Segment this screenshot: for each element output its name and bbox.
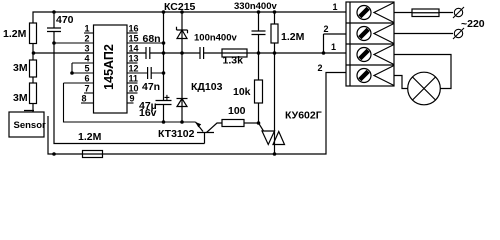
svg-text:КТ3102: КТ3102 — [158, 128, 195, 140]
junction pin12 / C47u — [162, 71, 166, 75]
pin 3 — [84, 44, 89, 54]
svg-text:1.3k: 1.3k — [223, 55, 244, 67]
svg-text:16v: 16v — [139, 107, 157, 119]
sensor box — [9, 112, 46, 137]
svg-text:15: 15 — [129, 34, 139, 44]
svg-text:КУ602Г: КУ602Г — [285, 110, 322, 122]
wire R1 bottom lead — [32, 44, 34, 54]
pin 16 — [127, 24, 139, 34]
wire top rail net 220-1 — [33, 12, 346, 23]
resistor 1.3k — [222, 49, 247, 67]
fuse F1 — [394, 9, 453, 17]
svg-text:3M: 3M — [13, 62, 28, 74]
pin 15 wire — [127, 34, 164, 44]
svg-text:2: 2 — [323, 24, 328, 34]
wire 3M to sensor — [24, 104, 34, 113]
pin 8 — [81, 94, 94, 104]
junction mid rail / zener-diode — [180, 51, 184, 55]
svg-text:6: 6 — [84, 74, 89, 84]
junction top rail / R1.2M right — [273, 10, 277, 14]
op-amp U1 IC 145AP2 box — [94, 25, 128, 113]
svg-text:5: 5 — [84, 64, 89, 74]
svg-text:7: 7 — [84, 84, 89, 94]
junction top rail / C470 — [52, 10, 56, 14]
svg-text:1: 1 — [331, 42, 336, 52]
svg-text:КД103: КД103 — [191, 81, 223, 93]
junction top rail / pin15 net — [162, 10, 166, 14]
junction top rail / C330n — [257, 10, 261, 14]
wire bottom common rail — [48, 73, 346, 155]
thyristor KU602G — [259, 53, 322, 154]
pin 1 — [84, 24, 94, 34]
wire terminal2 drop — [324, 34, 347, 53]
svg-text:3M: 3M — [13, 92, 28, 104]
svg-text:3: 3 — [84, 44, 89, 54]
resistor 3M (lower) — [13, 83, 37, 104]
pin 9 — [127, 94, 135, 104]
svg-text:13: 13 — [129, 54, 139, 64]
wire mid rail (pin3 to terminal 1) — [34, 52, 94, 54]
pin 14 — [129, 44, 139, 54]
svg-text:10: 10 — [129, 84, 139, 94]
resistor 100 — [222, 105, 259, 127]
svg-text:1.2M: 1.2M — [3, 28, 27, 40]
svg-text:КС215: КС215 — [164, 1, 196, 13]
junction pin3 / sensor divider — [32, 51, 36, 55]
svg-text:~220: ~220 — [461, 18, 485, 30]
capacitor 330n400v — [234, 1, 278, 53]
capacitor 47u 16v electrolytic — [139, 93, 172, 122]
pin 4 wire — [72, 54, 94, 74]
transistor Q1 KT3102 — [158, 122, 222, 144]
svg-text:11: 11 — [129, 74, 139, 84]
svg-text:1: 1 — [332, 2, 337, 12]
junction bottom rail / pin2 drop — [52, 152, 56, 156]
svg-text:1.2M: 1.2M — [281, 31, 305, 43]
svg-text:1: 1 — [84, 24, 89, 34]
lamp EL1 — [408, 72, 441, 105]
wire terminal4 to lamp — [394, 76, 408, 89]
junction emitter net / C47u bottom — [162, 120, 166, 124]
diode KD103 — [177, 81, 223, 107]
pin 12 wire — [127, 64, 164, 74]
pin 13 — [127, 54, 139, 64]
pin 10 — [127, 84, 139, 94]
wire base net — [54, 43, 205, 144]
wire terminal3 to lamp — [394, 55, 451, 89]
svg-text:2: 2 — [317, 63, 322, 73]
mains pin symbol bottom — [453, 28, 464, 39]
svg-text:+: + — [164, 93, 170, 104]
svg-text:68n: 68n — [143, 33, 161, 45]
resistor 10k — [233, 53, 263, 123]
mains pin symbol top — [453, 7, 464, 18]
junction bottom rail / thyristor cathode — [273, 152, 277, 156]
svg-text:100n400v: 100n400v — [194, 33, 238, 44]
svg-text:16: 16 — [129, 24, 139, 34]
junction mid rail / 10k — [257, 51, 261, 55]
wire mid rail right of IC — [127, 52, 346, 54]
svg-text:14: 14 — [129, 44, 139, 54]
svg-text:Sensor: Sensor — [14, 120, 47, 131]
junction pin2 / C470 bottom — [52, 41, 56, 45]
junction gate node — [257, 121, 261, 125]
junction mid rail / pin15 net — [162, 51, 166, 55]
svg-text:470: 470 — [56, 14, 74, 26]
svg-text:1.2M: 1.2M — [78, 131, 102, 143]
junction mid rail / terminal2 drop — [322, 51, 326, 55]
pin 6 wire to emitter net — [64, 74, 196, 123]
junction pin15 wire — [162, 41, 166, 45]
svg-text:2: 2 — [84, 34, 89, 44]
junction mid rail / thyristor anode — [273, 51, 277, 55]
svg-text:8: 8 — [81, 94, 86, 104]
svg-text:330n400v: 330n400v — [234, 1, 278, 12]
pin 7 — [84, 84, 94, 94]
svg-text:145АП2: 145АП2 — [102, 44, 116, 90]
capacitor 68n on pin14 line — [143, 33, 161, 59]
pin 2 wire to C470 — [54, 34, 94, 44]
wire between 3M resistors — [32, 53, 34, 83]
wire vertical 163.5 (top rail to pin12 node) — [163, 12, 165, 101]
capacitor 470 — [47, 12, 74, 43]
capacitor 100n400v — [194, 33, 238, 60]
wire terminal2 to mains — [394, 33, 453, 35]
junction pin4-pin5 tie — [70, 71, 74, 75]
resistor 3M (upper) — [13, 60, 37, 77]
svg-text:47n: 47n — [142, 81, 160, 93]
pin 11 — [127, 74, 138, 84]
svg-text:12: 12 — [129, 64, 139, 74]
resistor 1.2M (left) — [3, 23, 37, 44]
resistor 1.2M (bottom rail) — [78, 131, 103, 158]
svg-text:10k: 10k — [233, 86, 251, 98]
svg-text:9: 9 — [130, 94, 135, 104]
terminal block X1 — [346, 2, 394, 86]
svg-text:4: 4 — [84, 54, 89, 64]
junction top rail / zener KC215 — [180, 10, 184, 14]
zener diode KC215 — [164, 1, 196, 39]
resistor 1.2M (right) — [271, 12, 305, 53]
junction emitter net / diode KD103 — [180, 120, 184, 124]
pin 5 wire — [72, 64, 94, 74]
svg-text:100: 100 — [228, 105, 246, 117]
wire vertical 182 (top rail to emitter net) — [181, 12, 183, 122]
capacitor 47n on pin12 line — [142, 67, 160, 93]
